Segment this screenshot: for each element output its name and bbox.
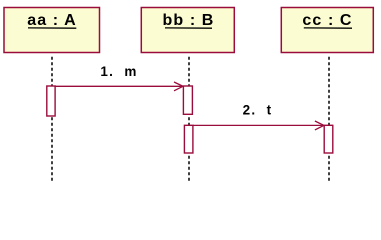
lifeline bb (188, 57, 190, 184)
object label cc : C (302, 12, 352, 29)
activation bar bb (first) (183, 86, 192, 114)
object box aa:A (4, 8, 100, 53)
message arrow 1. m (55, 82, 183, 91)
object label aa : A (27, 12, 77, 29)
activation bar bb (second) (184, 125, 193, 153)
svg-text:1. m: 1. m (100, 64, 137, 79)
object label bb : B (163, 12, 215, 29)
message label 1. m (100, 64, 137, 79)
activation bar cc (324, 125, 333, 153)
svg-text:aa : A: aa : A (27, 12, 77, 29)
message label 2. t (243, 103, 273, 118)
lifeline cc (328, 57, 330, 184)
object box cc:C (281, 8, 373, 53)
lifeline aa (51, 57, 53, 184)
message arrow 2. t (193, 121, 324, 130)
activation bar aa (47, 86, 55, 116)
svg-text:2. t: 2. t (243, 103, 273, 118)
object box bb:B (141, 8, 234, 53)
svg-text:cc : C: cc : C (302, 12, 352, 29)
svg-text:bb : B: bb : B (163, 12, 215, 29)
